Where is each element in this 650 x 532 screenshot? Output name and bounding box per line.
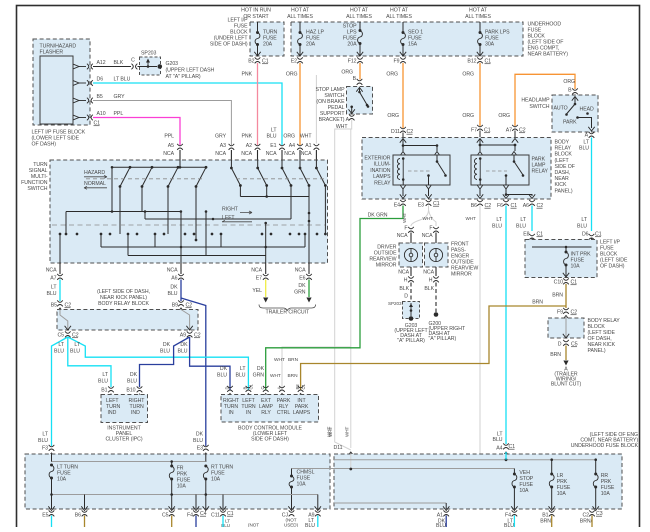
wire WHT into switch A1 [315, 75, 317, 144]
svg-text:FLASHER: FLASHER [40, 50, 64, 56]
block: LEFT I/P FUSE BLOCK (LEFT SIDE OF DASH) [525, 240, 597, 278]
svg-text:DK: DK [170, 285, 178, 291]
svg-text:WHT: WHT [466, 216, 477, 221]
svg-text:C: C [131, 58, 135, 64]
svg-text:A4: A4 [289, 143, 295, 149]
ground G203 (upper) [158, 64, 163, 69]
svg-text:NEAR BATTERY): NEAR BATTERY) [528, 52, 569, 58]
wire DK BLU A6 to B9 C2 [180, 280, 182, 302]
svg-text:E4: E4 [394, 203, 400, 209]
wire ORG F12 to stop lamp switch B [359, 63, 361, 80]
svg-text:B8: B8 [295, 384, 300, 390]
svg-text:B9: B9 [172, 303, 178, 309]
svg-text:BODY RELAY BLOCK: BODY RELAY BLOCK [98, 301, 149, 307]
switch centerline dashed [52, 224, 325, 226]
svg-text:20A: 20A [263, 42, 273, 48]
svg-text:NCA: NCA [423, 270, 434, 276]
svg-text:HOT AT: HOT AT [469, 8, 488, 14]
svg-text:A2: A2 [246, 143, 252, 149]
svg-text:HEAD: HEAD [580, 107, 595, 113]
fuse RT TURN FUSE 10A [204, 465, 207, 468]
svg-text:BRN/: BRN/ [580, 519, 593, 525]
fuse VEH STOP FUSE 10A [513, 473, 516, 476]
svg-text:ORG: ORG [563, 79, 575, 85]
svg-text:ILLUM-: ILLUM- [374, 162, 391, 168]
svg-text:C10: C10 [554, 280, 564, 286]
svg-text:A10: A10 [97, 111, 106, 117]
svg-text:BRACKET): BRACKET) [319, 117, 345, 123]
svg-text:USED): USED) [284, 523, 299, 528]
svg-text:PPL: PPL [164, 134, 174, 140]
svg-text:H: H [404, 278, 408, 284]
wire WHT branch to BCM PARK RLY CTRL [282, 347, 351, 390]
svg-text:PNK: PNK [241, 134, 252, 140]
svg-text:BLUNT CUT): BLUNT CUT) [551, 382, 582, 388]
svg-text:LT BLU: LT BLU [114, 77, 131, 83]
svg-text:E3: E3 [418, 203, 424, 209]
hazard coupling dashed line [86, 178, 324, 180]
ground G200 [434, 312, 439, 317]
svg-text:GRY: GRY [114, 94, 126, 100]
wire LT BLU A7 to B5 C2 [59, 280, 61, 302]
svg-text:F9: F9 [557, 310, 563, 316]
svg-text:BRN: BRN [552, 293, 563, 299]
svg-text:BLU: BLU [577, 224, 587, 230]
svg-text:BRN: BRN [532, 300, 543, 306]
switch lower bus left [66, 211, 182, 213]
svg-text:B6: B6 [471, 203, 477, 209]
flasher output pin arrow [73, 115, 79, 120]
svg-text:C1: C1 [301, 384, 306, 390]
svg-text:NCA: NCA [167, 268, 178, 274]
svg-text:OF DASH): OF DASH) [600, 264, 625, 270]
svg-text:ORG: ORG [462, 113, 474, 119]
svg-text:ORG: ORG [341, 70, 353, 76]
svg-text:B5: B5 [97, 94, 103, 100]
svg-text:HOT AT: HOT AT [291, 8, 310, 14]
connector F12 [357, 57, 363, 59]
wire LT BLU headlamp A to D6 C1 [591, 138, 593, 232]
svg-text:NEAR: NEAR [555, 176, 570, 182]
svg-text:BLK: BLK [114, 60, 124, 66]
wire WHT branch (left vertical) to D11 [335, 129, 352, 450]
svg-text:GRN: GRN [294, 290, 306, 296]
svg-text:F4: F4 [187, 513, 193, 519]
svg-text:PPL: PPL [114, 111, 124, 117]
svg-text:10A: 10A [557, 491, 567, 497]
svg-text:RIGHT: RIGHT [222, 207, 239, 213]
svg-text:BLK: BLK [424, 286, 434, 292]
svg-text:UNDERHOOD FUSE BLOCK: UNDERHOOD FUSE BLOCK [571, 443, 639, 449]
svg-text:NCA: NCA [163, 151, 174, 157]
svg-text:LT: LT [74, 342, 80, 348]
svg-text:YEL: YEL [252, 288, 262, 294]
svg-text:10A: 10A [519, 488, 529, 494]
fuse TURN FUSE 20A [257, 22, 259, 31]
svg-text:A: A [585, 133, 589, 139]
mirror motor symbol (passenger) [429, 248, 442, 261]
svg-text:E5: E5 [42, 513, 48, 519]
svg-text:CTRL: CTRL [277, 410, 291, 416]
svg-text:C: C [260, 387, 265, 390]
svg-text:BLU: BLU [267, 134, 277, 140]
svg-text:DK GRN: DK GRN [368, 213, 388, 219]
connector F3 [49, 445, 55, 447]
svg-text:BLU: BLU [98, 379, 108, 385]
block: bottom left fuse block [25, 454, 330, 509]
fuse SEO 1 FUSE 15A [402, 22, 404, 31]
wire BLK A12 to SP203 [93, 66, 131, 68]
splice arrow SP203 [147, 62, 149, 67]
flasher output pin arrow [73, 81, 79, 86]
svg-text:20A: 20A [306, 42, 316, 48]
svg-text:BLK: BLK [399, 286, 409, 292]
svg-text:WHT: WHT [423, 216, 434, 221]
svg-text:ALL TIMES: ALL TIMES [287, 14, 313, 20]
svg-text:WHT: WHT [300, 134, 313, 140]
switch internals: hazard row contacts [119, 185, 122, 188]
svg-text:AT "A" PILLAR): AT "A" PILLAR) [166, 74, 201, 80]
svg-text:20A: 20A [347, 42, 357, 48]
svg-text:ALL TIMES: ALL TIMES [386, 14, 412, 20]
wire LT BLU C5 to F3 (left drop) [52, 337, 68, 446]
svg-text:ALL TIMES: ALL TIMES [346, 14, 372, 20]
svg-text:B6: B6 [75, 513, 81, 519]
svg-text:D: D [225, 387, 230, 390]
switch internal mesh wires [179, 160, 181, 167]
connector E2 [297, 57, 303, 59]
svg-text:AUTO: AUTO [554, 106, 568, 112]
svg-text:LT: LT [520, 217, 526, 223]
svg-text:D6: D6 [582, 232, 589, 238]
wire DK BLU A9 to BCM RIGHT TURN IN [190, 337, 230, 390]
svg-text:B1: B1 [101, 388, 107, 394]
block: BODY RELAY BLOCK (LEFT SIDE OF DASH NEAR KICK PANEL) [362, 138, 551, 200]
fuse PARK LPS FUSE 30A [479, 22, 481, 31]
relay: PARK LAMP RELAY [471, 155, 529, 185]
svg-text:MIRROR: MIRROR [451, 272, 472, 278]
wire WHT E3 to mirrors [411, 206, 429, 227]
fuse RR PRK FUSE 10A [594, 473, 597, 476]
svg-text:NORMAL: NORMAL [84, 181, 106, 187]
svg-text:WHT: WHT [402, 212, 407, 223]
svg-text:SWITCH: SWITCH [27, 186, 47, 192]
svg-text:(NOT: (NOT [248, 523, 259, 528]
switch top pin connectors [177, 144, 183, 146]
svg-text:BLU: BLU [178, 349, 188, 355]
svg-text:WHT: WHT [274, 357, 285, 363]
relay 2 feed wires [477, 139, 483, 143]
svg-text:DK: DK [257, 366, 265, 372]
svg-text:F3: F3 [42, 446, 48, 452]
svg-text:C11: C11 [211, 513, 220, 519]
svg-text:NCA: NCA [46, 268, 57, 274]
svg-text:BLU: BLU [305, 523, 315, 527]
svg-text:10A: 10A [601, 491, 611, 497]
svg-text:LAMPS: LAMPS [373, 174, 391, 180]
svg-text:BLU: BLU [54, 349, 64, 355]
svg-text:B: B [243, 387, 248, 390]
svg-text:MIRROR: MIRROR [376, 263, 397, 269]
svg-text:BLU: BLU [38, 438, 48, 444]
stop lamp switch contact [356, 88, 362, 92]
wire ORG E2 to A4 [299, 63, 301, 145]
svg-text:DK: DK [180, 342, 188, 348]
svg-text:E8: E8 [523, 232, 529, 238]
wire BRN to trailer wiring blunt cut [565, 346, 567, 361]
relay: EXTERIOR ILLUMINATION LAMPS RELAY [393, 155, 450, 185]
svg-text:BLU: BLU [236, 373, 246, 379]
svg-text:WHT: WHT [345, 426, 350, 437]
svg-text:D11: D11 [334, 445, 343, 451]
svg-text:TRAILER CIRCUIT: TRAILER CIRCUIT [265, 310, 310, 316]
wire bus to A1 [334, 502, 446, 504]
svg-text:LT: LT [58, 342, 64, 348]
switch lower bus right [239, 186, 241, 197]
svg-text:ORG: ORG [283, 134, 295, 140]
svg-text:DK: DK [130, 372, 138, 378]
bottom-left block output pins [49, 510, 55, 512]
svg-text:(UPPER LEFT DASH: (UPPER LEFT DASH [166, 68, 215, 74]
svg-text:SP203: SP203 [388, 301, 402, 306]
svg-text:NCA: NCA [215, 151, 226, 157]
wires below bottom-left block [51, 516, 53, 528]
svg-text:BLU: BLU [127, 379, 137, 385]
fuse HAZ LP FUSE 20A [299, 22, 301, 31]
svg-text:A7: A7 [50, 276, 56, 282]
svg-text:NCA: NCA [295, 268, 306, 274]
svg-text:IND: IND [108, 410, 117, 416]
wire WHT B6 down to underhood block [479, 206, 481, 460]
svg-text:D11: D11 [391, 129, 400, 135]
fuse block: UNDERHOOD FUSE BLOCK (top) [291, 22, 523, 56]
block: bottom right underhood fuse block [334, 454, 622, 509]
svg-text:A4: A4 [496, 446, 502, 452]
connector B2 C1 [255, 57, 261, 59]
svg-text:BRN: BRN [288, 357, 299, 363]
svg-text:SWITCH: SWITCH [529, 104, 549, 110]
wire DK GRN E6 trailer [308, 280, 310, 298]
svg-text:H: H [429, 278, 433, 284]
module: TURN/HAZARD FLASHER (left I/P fuse block lower) [33, 39, 90, 125]
svg-text:LEFT: LEFT [222, 215, 235, 221]
relay 2 bottom pins B6 C2, F6 C1, A6 C2 [477, 185, 482, 189]
connector A9 C2 [186, 326, 192, 330]
svg-text:GRY: GRY [215, 134, 227, 140]
svg-text:BLU: BLU [516, 224, 526, 230]
svg-text:LT: LT [51, 285, 57, 291]
svg-text:DK: DK [163, 342, 171, 348]
svg-text:NCA: NCA [397, 233, 408, 239]
svg-text:NCA: NCA [251, 268, 262, 274]
wire LT BLU F6 to A4 C1 underhood [505, 206, 507, 445]
svg-text:"A" PILLAR): "A" PILLAR) [397, 338, 425, 344]
module: INSTRUMENT PANEL CLUSTER (IPC) [101, 395, 148, 423]
bottom-left block top bus [51, 454, 53, 462]
svg-text:HAZARD: HAZARD [84, 170, 105, 176]
ground G203 (lower) [409, 316, 414, 321]
wire LT BLU A6 to E8 C1 [531, 206, 533, 232]
wire PPL A10 to A5 [93, 118, 180, 146]
wire ORG B12 to F7 C1 [479, 63, 481, 126]
connector B12 C1 [477, 57, 483, 59]
svg-text:G203: G203 [166, 61, 179, 67]
svg-text:IND: IND [131, 410, 140, 416]
fuse CHMSL FUSE 10A [292, 468, 331, 470]
bottom-right block buses [330, 468, 514, 470]
svg-text:A5: A5 [168, 143, 174, 149]
svg-text:F: F [404, 226, 407, 232]
svg-text:CLUSTER (IPC): CLUSTER (IPC) [105, 437, 142, 443]
fuse STOP LPS FUSE 20A [359, 22, 361, 29]
connector E3 [203, 445, 209, 447]
svg-text:BODY: BODY [555, 140, 570, 146]
svg-text:BLU: BLU [579, 146, 589, 152]
wire LT BLU C5 to IPC B1 [68, 337, 111, 387]
svg-text:LAMPS: LAMPS [293, 410, 311, 416]
svg-text:10A: 10A [57, 477, 67, 483]
svg-text:(LEFT: (LEFT [555, 158, 570, 164]
wire LT BLU C5 to BCM LEFT TURN IN [68, 337, 249, 390]
svg-text:DK: DK [220, 366, 228, 372]
svg-text:BLU: BLU [160, 349, 170, 355]
switch lower contact dot rows [76, 233, 79, 236]
module: DRIVER OUTSIDE REARVIEW MIRROR [399, 243, 423, 267]
svg-text:F12: F12 [348, 59, 357, 65]
svg-text:BLU: BLU [193, 438, 203, 444]
svg-text:PANEL): PANEL) [555, 188, 573, 194]
switch lower buses 2 [100, 234, 102, 247]
svg-text:PNK: PNK [241, 72, 252, 78]
svg-text:NCA: NCA [301, 151, 312, 157]
wire YEL E7 trailer [265, 280, 267, 298]
wire DK BLU A9 to IPC B10 [140, 337, 190, 387]
svg-text:RELAY: RELAY [555, 146, 572, 152]
flasher output pin arrow [73, 64, 79, 69]
wire GRY B5 to A3 [93, 101, 231, 146]
svg-text:IN: IN [246, 410, 251, 416]
svg-text:10A: 10A [571, 264, 581, 270]
bottom-left block lower bus [52, 494, 318, 496]
block: BODY RELAY BLOCK (left) [57, 310, 198, 331]
svg-text:DASH,: DASH, [555, 170, 571, 176]
svg-text:ORG: ORG [498, 113, 510, 119]
svg-text:NCA: NCA [284, 151, 295, 157]
bottom-right block output pins [443, 510, 449, 512]
svg-text:GRN: GRN [253, 373, 265, 379]
flasher output pin arrow [73, 98, 79, 103]
relay 1 feed wires [400, 139, 406, 143]
wire BRN branch to BCM INT PARK LAMPS [301, 306, 566, 390]
svg-text:C1: C1 [249, 384, 254, 390]
svg-text:E3: E3 [197, 446, 203, 452]
svg-text:E6: E6 [299, 276, 305, 282]
svg-text:10A: 10A [177, 484, 187, 490]
svg-text:DK: DK [298, 283, 306, 289]
svg-text:LT: LT [42, 432, 48, 438]
svg-text:A3: A3 [220, 143, 226, 149]
svg-text:BLU: BLU [70, 349, 80, 355]
svg-text:F6: F6 [497, 203, 503, 209]
fuse INT PRK FUSE 10A [532, 246, 592, 248]
fuse FR PRK FUSE 10A [170, 465, 173, 468]
svg-text:BLU: BLU [492, 224, 502, 230]
svg-text:C5: C5 [57, 333, 64, 339]
trailer circuit brace and label [259, 305, 316, 311]
svg-text:E2: E2 [291, 59, 297, 65]
module: FRONT PASSENGER OUTSIDE REARVIEW MIRROR [425, 243, 449, 267]
svg-text:B10: B10 [126, 388, 135, 394]
svg-text:KICK: KICK [555, 182, 567, 188]
svg-text:D: D [558, 342, 562, 348]
relay 1 bottom pins E4 and E3 C1 [400, 185, 405, 189]
svg-text:BRN: BRN [288, 373, 299, 379]
svg-text:BLU: BLU [493, 437, 503, 443]
svg-text:A9: A9 [180, 333, 186, 339]
mirror motor symbol (driver) [404, 248, 417, 261]
svg-text:"A" PILLAR): "A" PILLAR) [429, 336, 457, 342]
wire PNK B2 to A2 [257, 63, 259, 145]
svg-text:A6: A6 [171, 276, 177, 282]
connector A4 C1 [503, 443, 509, 445]
svg-text:RELAY: RELAY [532, 169, 549, 175]
svg-text:B: B [353, 76, 357, 82]
fuse block: LEFT I/P FUSE BLOCK (UNDER LEFT SIDE OF DASH) [250, 22, 284, 56]
wire LT BLU D6 to E1 [93, 83, 282, 145]
fuse LR PRK FUSE 10A [550, 473, 553, 476]
svg-text:HOT IN RUN: HOT IN RUN [241, 8, 271, 14]
svg-text:HOT AT: HOT AT [350, 8, 369, 14]
svg-text:PARK: PARK [563, 120, 577, 126]
svg-text:D6: D6 [97, 77, 104, 83]
svg-text:10A: 10A [211, 477, 221, 483]
svg-text:BRN: BRN [540, 519, 551, 525]
headlamp switch contacts AUTO HEAD PARK [572, 97, 578, 101]
wire ORG headlamp switch to A7 C2 park relay [515, 74, 575, 126]
wire DK BLU branch B9 to E3 bottom [181, 298, 206, 446]
svg-text:LT: LT [581, 217, 587, 223]
svg-text:BLU: BLU [436, 523, 446, 527]
switch output risers [59, 234, 61, 263]
svg-text:D: D [404, 294, 408, 300]
svg-text:SIDE OF DASH): SIDE OF DASH) [251, 437, 289, 443]
svg-text:HEADLAMP: HEADLAMP [521, 98, 550, 104]
svg-text:BRN: BRN [550, 352, 561, 358]
svg-text:ORG: ORG [286, 72, 298, 78]
svg-text:ORG: ORG [386, 72, 398, 78]
svg-text:NCA: NCA [398, 270, 409, 276]
svg-text:ORG: ORG [387, 113, 399, 119]
svg-text:INATION: INATION [370, 168, 391, 174]
svg-text:NCA: NCA [266, 151, 277, 157]
wire BLK driver mirror to SP203 (dashed) [410, 283, 412, 302]
svg-text:OF DASH): OF DASH) [32, 142, 57, 148]
svg-text:WHT: WHT [270, 373, 281, 379]
svg-text:A: A [277, 387, 282, 390]
wire WHT stop lamp switch to D11 underhood (right vertical) [350, 120, 353, 448]
svg-text:LT: LT [240, 366, 246, 372]
svg-text:A6: A6 [523, 203, 529, 209]
BCM pin connectors and rotated labels [227, 386, 233, 388]
svg-text:B12: B12 [467, 59, 476, 65]
svg-text:NCA: NCA [422, 233, 433, 239]
svg-text:SIDE OF: SIDE OF [555, 164, 575, 170]
svg-text:F9: F9 [394, 59, 400, 65]
svg-text:RELAY: RELAY [374, 180, 391, 186]
svg-text:30A: 30A [485, 42, 495, 48]
svg-text:E1: E1 [270, 143, 276, 149]
svg-text:SIDE OF DASH): SIDE OF DASH) [210, 42, 248, 48]
